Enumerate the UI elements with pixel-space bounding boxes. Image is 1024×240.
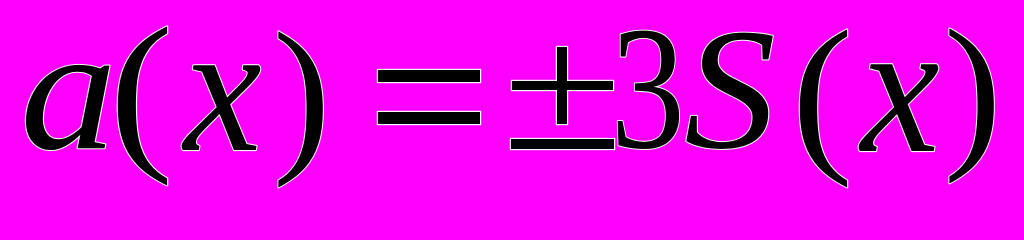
svg-text:a: a [20, 0, 117, 187]
svg-text:3: 3 [611, 0, 685, 186]
equals sign [377, 69, 481, 125]
svg-text:x: x [858, 0, 940, 192]
svg-text:(: ( [792, 0, 853, 188]
plus-minus sign [510, 46, 615, 150]
svg-text:): ) [273, 0, 331, 189]
svg-text:x: x [181, 0, 262, 190]
svg-text:(: ( [109, 0, 173, 186]
svg-text:S: S [684, 0, 776, 185]
svg-text:): ) [944, 0, 1002, 185]
